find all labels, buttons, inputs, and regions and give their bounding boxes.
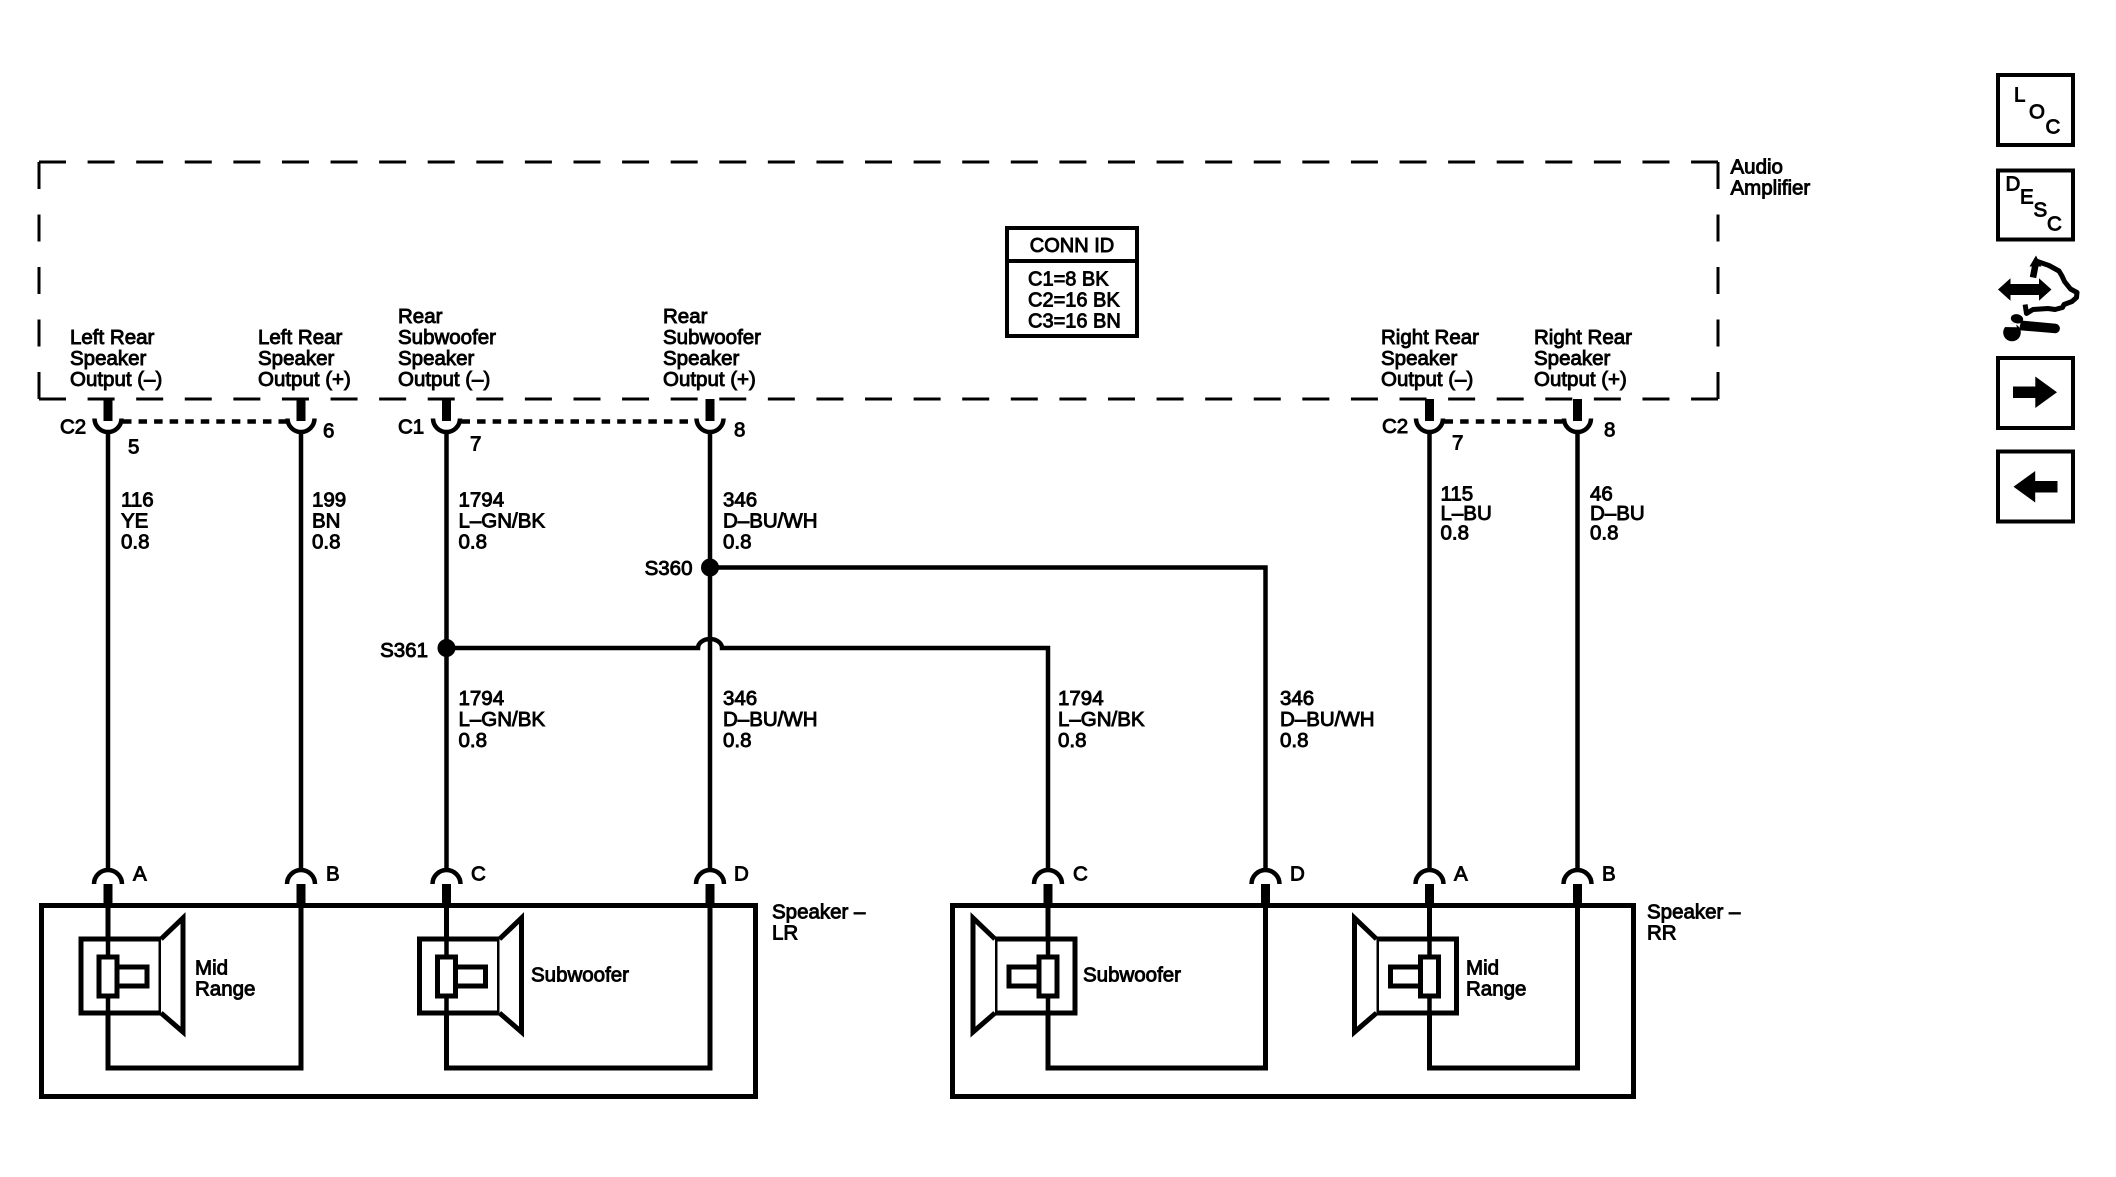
amp pin label: Right Rear Speaker Output (-)	[1381, 326, 1479, 391]
pin letter B (LR)	[326, 862, 340, 885]
CONN ID table	[1007, 228, 1137, 336]
pin label C1	[398, 415, 424, 438]
svg-text:C: C	[2046, 115, 2061, 138]
svg-text:Mid: Mid	[195, 956, 228, 979]
svg-text:Speaker –: Speaker –	[1647, 900, 1741, 923]
speaker RR connector pin B	[1564, 870, 1592, 904]
label: Mid Range (RR)	[1466, 956, 1526, 1000]
svg-text:D–BU/WH: D–BU/WH	[723, 708, 818, 731]
label S360	[645, 557, 693, 580]
svg-text:Audio: Audio	[1731, 155, 1783, 178]
svg-text:YE: YE	[121, 509, 148, 532]
svg-text:RR: RR	[1647, 921, 1677, 944]
svg-text:199: 199	[312, 488, 346, 511]
svg-text:Output (+): Output (+)	[663, 368, 756, 391]
svg-text:E: E	[2020, 185, 2034, 208]
label: Audio Amplifier	[1731, 155, 1811, 199]
splice S360	[701, 559, 719, 577]
svg-text:C1=8 BK: C1=8 BK	[1028, 269, 1109, 291]
wire label 346 D-BU/WH 0.8 (lower left)	[723, 687, 818, 752]
svg-text:C: C	[1073, 862, 1088, 885]
connector C1 pin 8	[697, 399, 724, 432]
connector C1 pin 7	[433, 399, 460, 432]
wire 346 D-BU/WH (pin 8 to splice S360 to speaker D)	[708, 434, 713, 872]
svg-text:D–BU/WH: D–BU/WH	[723, 509, 818, 532]
LOC button letters	[2014, 83, 2061, 138]
amp pin label: Left Rear Speaker Output (-)	[70, 326, 162, 391]
svg-text:Subwoofer: Subwoofer	[531, 963, 629, 986]
svg-text:A: A	[1454, 862, 1468, 885]
connector dashed line C2 right (pins 7-8)	[1445, 419, 1563, 424]
connector C2 (right) pin 7	[1416, 399, 1443, 432]
svg-text:Amplifier: Amplifier	[1731, 176, 1811, 199]
pin letter C (RR)	[1073, 862, 1088, 885]
arrow right button box	[1998, 358, 2073, 428]
svg-text:346: 346	[723, 488, 757, 511]
svg-text:Speaker: Speaker	[1534, 347, 1611, 370]
LOC button box	[1998, 75, 2073, 145]
wire from S360 to RR subwoofer D (346 D-BU/WH)	[710, 568, 1266, 872]
svg-text:Speaker: Speaker	[398, 347, 475, 370]
splice S361	[438, 639, 456, 657]
speaker LR connector pin A	[94, 870, 122, 904]
pin label C2	[60, 415, 86, 438]
wire label 1794 L-GN/BK 0.8 (lower right)	[1058, 687, 1145, 752]
svg-text:Speaker –: Speaker –	[772, 900, 866, 923]
label: Subwoofer (LR)	[531, 963, 629, 986]
wire loop mid range LR (A to B)	[108, 903, 301, 1068]
svg-text:D–BU/WH: D–BU/WH	[1280, 708, 1375, 731]
svg-text:BN: BN	[312, 509, 340, 532]
svg-text:C2: C2	[1382, 415, 1408, 438]
pin number 8 (right)	[1604, 418, 1615, 441]
connector dashed line C1 (pins 7-8)	[462, 419, 696, 424]
speaker LR connector pin B	[287, 870, 315, 904]
wire loop subwoofer RR (C to D)	[1048, 903, 1266, 1068]
svg-text:Speaker: Speaker	[663, 347, 740, 370]
svg-text:Mid: Mid	[1466, 956, 1499, 979]
svg-text:6: 6	[323, 419, 334, 442]
pin number 7 (right)	[1452, 431, 1463, 454]
wire label 346 D-BU/WH 0.8 (lower right)	[1280, 687, 1375, 752]
speaker symbol mid range LR	[81, 918, 183, 1032]
svg-text:0.8: 0.8	[723, 729, 752, 752]
wire 115 L-BU (pin 7 right to speaker A)	[1427, 434, 1432, 872]
svg-text:0.8: 0.8	[1590, 521, 1619, 544]
svg-text:Right Rear: Right Rear	[1381, 326, 1479, 349]
svg-text:0.8: 0.8	[1058, 729, 1087, 752]
connector C2 pin 6	[288, 399, 315, 432]
svg-text:Output (–): Output (–)	[398, 368, 490, 391]
svg-text:CONN ID: CONN ID	[1030, 235, 1114, 257]
svg-text:L: L	[2014, 83, 2025, 106]
svg-text:0.8: 0.8	[121, 530, 150, 553]
svg-text:S: S	[2034, 198, 2048, 221]
svg-text:S360: S360	[645, 557, 693, 580]
pin letter A (RR)	[1454, 862, 1468, 885]
wire label 1794 L-GN/BK 0.8 (upper)	[459, 488, 546, 553]
svg-text:Rear: Rear	[398, 305, 443, 328]
svg-text:C1: C1	[398, 415, 424, 438]
svg-text:1794: 1794	[459, 687, 505, 710]
svg-text:7: 7	[470, 432, 481, 455]
pin letter C (LR)	[471, 862, 486, 885]
label S361	[380, 639, 428, 662]
svg-text:C2: C2	[60, 415, 86, 438]
svg-text:D: D	[734, 862, 749, 885]
wire 199 BN (pin 6 to speaker B)	[299, 434, 304, 872]
pin letter D (RR)	[1290, 862, 1305, 885]
DESC button box	[1998, 171, 2073, 240]
wire label 199 BN 0.8	[312, 488, 346, 553]
svg-text:0.8: 0.8	[459, 729, 488, 752]
wire label 116 YE 0.8	[121, 488, 154, 553]
svg-text:Range: Range	[195, 977, 255, 1000]
svg-text:L–GN/BK: L–GN/BK	[459, 708, 546, 731]
pin number 7	[470, 432, 481, 455]
label: Mid Range (LR)	[195, 956, 255, 1000]
svg-text:0.8: 0.8	[312, 530, 341, 553]
pin number 8	[734, 418, 745, 441]
svg-text:Left Rear: Left Rear	[258, 326, 342, 349]
svg-text:0.8: 0.8	[1280, 729, 1309, 752]
connector dashed line C2 (pins 5-6)	[123, 419, 287, 424]
pin number 6	[323, 419, 334, 442]
wire label 115 L-BU 0.8	[1441, 482, 1492, 544]
amp pin label: Left Rear Speaker Output (+)	[258, 326, 351, 391]
amp pin label: Rear Subwoofer Speaker Output (-)	[398, 305, 496, 391]
svg-text:116: 116	[121, 488, 154, 511]
svg-text:Output (+): Output (+)	[258, 368, 351, 391]
label: Speaker - RR	[1647, 900, 1741, 944]
svg-text:S361: S361	[380, 639, 428, 662]
svg-text:Output (–): Output (–)	[1381, 368, 1473, 391]
svg-text:Range: Range	[1466, 977, 1526, 1000]
svg-text:B: B	[326, 862, 340, 885]
wire loop mid range RR (A to B)	[1430, 903, 1578, 1068]
svg-text:Subwoofer: Subwoofer	[398, 326, 496, 349]
pin number 5	[128, 435, 139, 458]
svg-text:O: O	[2029, 100, 2045, 123]
amplifier U1 box (dashed)	[39, 162, 1718, 399]
svg-text:B: B	[1602, 862, 1616, 885]
pin letter A (LR)	[133, 862, 147, 885]
speaker symbol subwoofer RR	[973, 918, 1075, 1032]
svg-text:Output (+): Output (+)	[1534, 368, 1627, 391]
svg-text:Subwoofer: Subwoofer	[663, 326, 761, 349]
svg-text:D: D	[2006, 172, 2021, 195]
arrow left icon	[2014, 471, 2058, 503]
wire from S361 to RR subwoofer C (1794 L-GN/BK) with hop over 346 wire	[447, 639, 1049, 872]
svg-text:7: 7	[1452, 431, 1463, 454]
svg-text:1794: 1794	[1058, 687, 1104, 710]
svg-text:0.8: 0.8	[459, 530, 488, 553]
svg-text:0.8: 0.8	[723, 530, 752, 553]
svg-text:346: 346	[723, 687, 757, 710]
speaker symbol mid range RR	[1355, 918, 1457, 1032]
speaker LR box	[42, 906, 756, 1097]
svg-text:Subwoofer: Subwoofer	[1083, 963, 1181, 986]
speaker symbol subwoofer LR	[420, 918, 522, 1032]
svg-text:C: C	[2047, 212, 2062, 235]
wire label 346 D-BU/WH 0.8 (upper)	[723, 488, 818, 553]
wire label 46 D-BU 0.8	[1590, 482, 1645, 544]
DESC button letters	[2006, 172, 2063, 235]
label: Speaker - LR	[772, 900, 866, 944]
arrow right icon	[2013, 377, 2057, 409]
svg-text:5: 5	[128, 435, 139, 458]
svg-text:LR: LR	[772, 921, 798, 944]
connector C2 pin 5	[95, 399, 122, 432]
svg-text:Rear: Rear	[663, 305, 708, 328]
speaker RR box	[953, 906, 1634, 1097]
svg-text:C2=16 BK: C2=16 BK	[1028, 290, 1120, 312]
svg-text:Right Rear: Right Rear	[1534, 326, 1632, 349]
label: Subwoofer (RR)	[1083, 963, 1181, 986]
wire 1794 L-GN/BK (pin 7 to splice S361 to speaker C)	[444, 434, 449, 872]
svg-text:L–GN/BK: L–GN/BK	[1058, 708, 1145, 731]
speaker LR connector pin C	[433, 870, 461, 904]
svg-text:Left Rear: Left Rear	[70, 326, 154, 349]
svg-text:D: D	[1290, 862, 1305, 885]
svg-text:L–GN/BK: L–GN/BK	[459, 509, 546, 532]
svg-text:346: 346	[1280, 687, 1314, 710]
wire 46 D-BU (pin 8 right to speaker B)	[1575, 434, 1580, 872]
wire loop subwoofer LR (C to D)	[447, 903, 711, 1068]
svg-text:C3=16 BN: C3=16 BN	[1028, 311, 1121, 333]
speaker RR connector pin C	[1034, 870, 1062, 904]
speaker LR connector pin D	[696, 870, 724, 904]
wire 116 YE (pin 5 to speaker A)	[106, 434, 111, 872]
wire label 1794 L-GN/BK 0.8 (lower left)	[459, 687, 546, 752]
pin label C2 (right)	[1382, 415, 1408, 438]
svg-text:1794: 1794	[459, 488, 505, 511]
speaker RR connector pin D	[1252, 870, 1280, 904]
svg-text:C: C	[471, 862, 486, 885]
svg-text:8: 8	[1604, 418, 1615, 441]
svg-text:Output (–): Output (–)	[70, 368, 162, 391]
speaker RR connector pin A	[1416, 870, 1444, 904]
amp pin label: Rear Subwoofer Speaker Output (+)	[663, 305, 761, 391]
arrow left button box	[1998, 452, 2073, 522]
svg-text:Speaker: Speaker	[1381, 347, 1458, 370]
svg-text:Speaker: Speaker	[70, 347, 147, 370]
pin letter B (RR)	[1602, 862, 1616, 885]
svg-text:8: 8	[734, 418, 745, 441]
svg-text:0.8: 0.8	[1441, 521, 1470, 544]
amp pin label: Right Rear Speaker Output (+)	[1534, 326, 1632, 391]
connector C2 (right) pin 8	[1564, 399, 1591, 432]
svg-text:A: A	[133, 862, 147, 885]
svg-text:Speaker: Speaker	[258, 347, 335, 370]
pin letter D (LR)	[734, 862, 749, 885]
tool icon (double arrow + wrench)	[2000, 256, 2078, 342]
